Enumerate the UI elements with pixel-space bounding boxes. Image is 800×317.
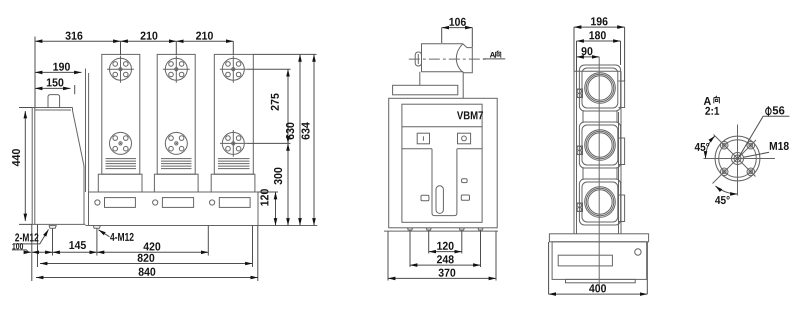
dim 316 bbox=[35, 40, 121, 42]
detail inner circle bbox=[719, 140, 757, 178]
label 4-M12 leader bbox=[99, 230, 110, 237]
top plate bbox=[393, 85, 458, 95]
extension lines top bbox=[35, 37, 233, 108]
P3 grill lines bbox=[218, 159, 250, 169]
detail diagonal 135-315 bbox=[714, 135, 756, 177]
P3 lower terminal flange bbox=[222, 132, 244, 154]
left small port bbox=[421, 195, 429, 201]
frame lines behind cabinet bbox=[86, 69, 89, 193]
dim 90 bbox=[577, 56, 600, 58]
detail diagonal 225-45 bbox=[713, 140, 757, 184]
pole column P1 bbox=[102, 54, 140, 174]
base plate slot 1 bbox=[105, 198, 136, 208]
dim 840 bbox=[36, 277, 258, 279]
bolt hole LL bbox=[720, 168, 728, 176]
base bottom plate bbox=[566, 279, 636, 282]
dim 120 middle bbox=[429, 251, 462, 253]
P2 top crosshair bbox=[163, 56, 190, 83]
P2 grill lines bbox=[161, 159, 192, 169]
dim 400 bbox=[549, 293, 648, 295]
extension middle bottom bbox=[388, 231, 496, 281]
base plate slot 2 bbox=[162, 198, 193, 208]
bushing right cap bbox=[456, 44, 472, 73]
dim 630 bbox=[299, 54, 301, 225]
detail outer circle bbox=[715, 136, 760, 181]
button O bbox=[458, 133, 471, 144]
dim 300 bbox=[287, 143, 289, 225]
P1 grill lines bbox=[106, 159, 137, 169]
arc 45 lower bbox=[715, 186, 737, 194]
pole circle 1 bbox=[585, 73, 616, 104]
cabinet knob bbox=[48, 95, 60, 108]
base body bbox=[552, 242, 647, 280]
extension 150 bbox=[74, 85, 76, 94]
clip 1 bbox=[577, 89, 583, 98]
pole circle 2 bbox=[585, 130, 616, 161]
label phi56 bbox=[766, 106, 771, 116]
right small port upper bbox=[462, 179, 468, 183]
leader phi56 bbox=[738, 116, 789, 158]
base circle bbox=[635, 249, 641, 255]
leader M18 bbox=[744, 152, 770, 157]
base slot bbox=[558, 255, 612, 266]
bolt 2-M12 bbox=[49, 226, 56, 229]
label A-dir detail bbox=[704, 97, 711, 105]
dim 106 bbox=[442, 27, 473, 29]
cabinet body bbox=[32, 108, 85, 225]
P3 top terminal flange bbox=[222, 58, 244, 80]
right small port lower bbox=[461, 195, 469, 200]
housing 1 bbox=[579, 65, 620, 111]
label 2:1 bbox=[705, 107, 719, 115]
tab 1 bbox=[619, 81, 625, 108]
middle feet bbox=[408, 228, 484, 230]
tab 3 bbox=[619, 195, 625, 222]
connector strap 1 bbox=[583, 111, 617, 122]
base plate bbox=[89, 192, 259, 226]
dim 275 bbox=[287, 69, 289, 143]
P3 foot bbox=[211, 174, 255, 192]
dim 820 bbox=[40, 263, 253, 265]
housing 3 bbox=[579, 179, 620, 225]
dim 634 bbox=[313, 54, 315, 225]
dim 370 bbox=[388, 277, 496, 279]
extension lines right bbox=[247, 54, 317, 192]
dim 210 a bbox=[121, 40, 177, 42]
bolt hole LR bbox=[747, 168, 755, 176]
dim 248 bbox=[410, 264, 481, 266]
bolt 4-M12 bbox=[93, 226, 100, 229]
base plate slot 3 bbox=[219, 198, 250, 208]
dim 180 bbox=[577, 40, 621, 42]
label 2-M12 leader bbox=[15, 230, 49, 244]
panel band lines bbox=[402, 127, 482, 149]
extension 440 bbox=[19, 108, 32, 225]
bushing stem bbox=[420, 72, 463, 99]
button I bbox=[417, 133, 429, 144]
base plate hole 3 bbox=[210, 200, 215, 205]
bolt hole UR bbox=[747, 141, 755, 149]
clip 2 bbox=[577, 146, 583, 155]
inner panel bbox=[402, 104, 482, 222]
dim 120 right bbox=[275, 192, 277, 226]
extension 106 bbox=[442, 28, 473, 47]
middle ground line bbox=[384, 230, 498, 232]
bolt hole UL bbox=[720, 141, 728, 149]
P3 top crosshair bbox=[220, 56, 247, 83]
dim 150 bbox=[35, 87, 71, 89]
connector strap 2 bbox=[583, 168, 617, 179]
P1 foot bbox=[98, 174, 142, 192]
T stem bbox=[432, 149, 457, 216]
P1 top crosshair bbox=[107, 56, 134, 83]
capsule slot bbox=[436, 186, 443, 214]
extensions right view top bbox=[574, 27, 625, 81]
outer box bbox=[389, 98, 498, 228]
dim 196 bbox=[574, 26, 625, 28]
base flange bbox=[549, 234, 648, 242]
column bbox=[574, 71, 621, 234]
P2 top terminal flange bbox=[165, 58, 187, 80]
extension lines bottom left bbox=[32, 224, 258, 281]
P2 lower terminal flange bbox=[165, 132, 187, 154]
label A-dir middle bbox=[490, 52, 495, 58]
P1 lower terminal flange bbox=[110, 132, 132, 154]
dim 210 b bbox=[176, 40, 233, 42]
extensions 400 bbox=[549, 242, 648, 294]
housing 2 bbox=[579, 122, 620, 168]
P2 foot bbox=[154, 174, 198, 192]
arc 45 upper bbox=[706, 136, 715, 159]
pole column P2 bbox=[157, 54, 195, 174]
ground line bbox=[86, 225, 318, 227]
tab 2 bbox=[619, 138, 625, 165]
base plate hole 1 bbox=[95, 200, 100, 205]
base plate hole 2 bbox=[153, 200, 158, 205]
bushing centerline bbox=[409, 58, 487, 60]
label VBM7 bbox=[457, 111, 483, 119]
dim 440 bbox=[24, 111, 26, 221]
detail crosshair bbox=[704, 125, 776, 196]
dim 100 bbox=[32, 251, 53, 253]
clip 3 bbox=[577, 203, 583, 212]
pole circle 3 bbox=[585, 187, 616, 218]
pole column P3 bbox=[214, 54, 253, 174]
dim 420 bbox=[97, 251, 208, 253]
centerline right view bbox=[598, 57, 600, 285]
P3 lower crosshair bbox=[220, 130, 247, 157]
dim 145 bbox=[53, 251, 97, 253]
bushing left knob bbox=[415, 52, 421, 66]
label 100 leader bbox=[12, 250, 31, 252]
dim 190 bbox=[35, 71, 82, 73]
center thread M18 bbox=[734, 155, 741, 162]
top bushing body bbox=[422, 44, 464, 72]
P1 top terminal flange bbox=[110, 58, 132, 80]
